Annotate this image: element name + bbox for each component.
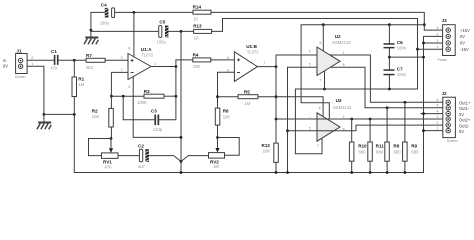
wire RV1 to C2 [118,155,139,157]
svg-text:7: 7 [263,61,265,65]
svg-text:R6: R6 [223,109,229,114]
svg-text:C6: C6 [397,40,403,45]
resistor R8 [385,142,401,161]
wire U1:B inverting input [218,72,235,108]
svg-text:1M: 1M [213,164,219,169]
svg-text:10K: 10K [263,149,271,154]
svg-text:C5: C5 [159,19,165,24]
wire R7 to U1:A +in [105,59,128,61]
wire RV2 loop [218,138,240,156]
svg-text:4: 4 [309,117,311,121]
op-amp U1:A [121,47,157,90]
node R9 tap [404,101,407,104]
svg-text:Screen: Screen [447,139,458,143]
svg-text:10: 10 [194,36,199,41]
svg-text:1: 1 [437,127,439,131]
wire U3 output A Out2+ [317,118,443,120]
node R1 bottom junction [73,113,76,116]
resistor R6 [215,108,230,137]
svg-text:47n: 47n [50,66,58,71]
resistor R11 [368,142,384,161]
node U3 pin4 tap [275,118,278,121]
svg-text:R7: R7 [86,53,92,58]
node bottom rail -15f tap [180,171,183,174]
resistor R1 [72,60,85,114]
capacitor C2 [138,143,149,169]
svg-text:100n: 100n [397,72,407,77]
wire feedback row to R3 [111,95,144,97]
node R5 right junction [275,95,278,98]
node RV2 wiper junction [216,136,219,139]
wire U2 output A [317,55,443,102]
svg-text:4: 4 [309,50,311,54]
wire R5 node to U3 top pin [276,97,323,117]
ground symbol input [37,114,51,129]
svg-text:J3: J3 [442,18,448,23]
svg-text:C7: C7 [397,67,403,72]
svg-text:U2: U2 [335,34,341,39]
resistor R10 [349,142,367,161]
svg-text:R9: R9 [411,143,417,148]
svg-text:100u: 100u [100,20,110,25]
resistor R13 [193,24,211,41]
driver U2 [309,34,351,82]
node R12 bottom rail [275,171,278,174]
node U2 V- tap [323,88,326,91]
svg-text:0V: 0V [460,41,465,46]
svg-text:0V: 0V [459,112,464,117]
connector J3 [437,18,470,62]
wire C3 left branch [123,96,155,120]
svg-text:10: 10 [193,16,198,21]
svg-text:Chinch: Chinch [15,75,26,79]
svg-text:2: 2 [437,121,439,125]
svg-text:J1: J1 [16,48,22,53]
svg-text:8: 8 [343,63,345,67]
svg-text:0V: 0V [460,34,465,39]
wire U1:A pin 8 supply drop [133,12,135,56]
svg-text:6: 6 [320,41,322,45]
svg-text:0V: 0V [459,129,464,134]
svg-text:5: 5 [309,126,311,130]
wire R11 string [369,119,371,173]
svg-text:R8: R8 [393,143,399,148]
node R10 tap [350,118,353,121]
node R8 tap [386,106,389,109]
svg-text:3: 3 [437,115,439,119]
svg-text:47K: 47K [105,164,113,169]
svg-text:3: 3 [437,32,439,36]
resistor R3 [137,89,164,105]
svg-text:5: 5 [437,104,439,108]
node 0V x C6C7 mid [422,56,425,59]
node C6 top tap [388,23,391,26]
wire V junction to RV2 [181,156,209,162]
node U3 pin5 tap [286,129,289,132]
node RV1 wiper junction [110,137,113,140]
node junction C4/U1 supply [133,11,136,14]
wire C2 to V junction [149,156,181,162]
wire U1:A pin4 to -15f [133,77,181,138]
node J2 0V pin3 junction [422,112,425,115]
svg-text:8: 8 [128,47,130,51]
svg-text:R2: R2 [92,108,98,113]
svg-text:6: 6 [319,106,321,110]
capacitor C6 [384,40,407,50]
wire C3 right to output node [159,96,176,120]
svg-text:1M: 1M [244,101,250,106]
connector J1 [3,48,33,79]
svg-text:680: 680 [394,150,402,155]
wire J3 pin1 [418,48,443,50]
node U1:A output junction [175,65,178,68]
wire R13 to -15 rail [212,19,418,154]
svg-text:680: 680 [411,150,419,155]
svg-text:U3: U3 [336,98,342,103]
capacitor C5 [157,19,169,44]
wire 0V to R1 bottom [44,113,74,115]
resistor R7 [86,53,105,70]
wire R9 string [404,102,406,172]
svg-text:-15V: -15V [460,47,469,52]
svg-text:1: 1 [437,45,439,49]
node J3 pin2 junction [422,42,425,45]
wire J3 pin2 [424,42,443,44]
driver U3 [309,98,352,148]
svg-text:7: 7 [317,144,319,148]
wire J1 0V down [27,66,44,114]
wire U3 output B Out2- [317,125,442,131]
svg-text:R13: R13 [193,24,202,29]
svg-text:4u7: 4u7 [138,164,146,169]
svg-text:680: 680 [359,150,367,155]
svg-text:10K: 10K [223,114,231,119]
svg-text:10K: 10K [92,114,100,119]
wire +15V top rail left segment to C4 [91,12,106,30]
wire R10 string [351,119,353,173]
resistor R2 [92,96,114,138]
node -15f pin4 tap [180,136,183,139]
node R11 tap [369,118,372,121]
svg-text:3: 3 [121,56,123,60]
wire C1 to R7 [59,59,87,61]
svg-text:1M: 1M [78,82,84,87]
wire RV1 loop [89,139,112,156]
svg-text:TL072: TL072 [141,52,154,57]
svg-text:R1: R1 [78,77,84,82]
wire +15 subrail [301,25,424,119]
wire U1:B output [257,66,276,68]
svg-text:1: 1 [343,51,345,55]
node ground/C4 junction [90,29,93,32]
svg-text:10K: 10K [193,64,201,69]
wire U2 V+ stub [322,25,324,51]
wire U1:A output [151,66,176,68]
svg-text:R11: R11 [376,143,385,148]
potentiometer RV1 [102,153,119,170]
op-amp U1:B [227,44,265,81]
svg-text:R3: R3 [144,89,150,94]
node input ground junction [43,113,46,116]
svg-text:Out1-: Out1- [459,106,470,111]
node J2 0V pin6 junction [422,129,425,132]
svg-text:C4: C4 [101,3,107,8]
wire RV1 wiper arrow [109,139,113,153]
wire output node up to R4 [176,60,193,96]
wire C6 string [388,25,390,89]
node C3 left branch [122,95,125,98]
wire U1:B out down R12 string [275,67,277,144]
svg-text:R10: R10 [358,143,367,148]
node R11 bottom [369,171,372,174]
ground rail y31 [91,30,159,32]
capacitor C7 [384,67,407,78]
node +15 subrail junction [423,23,426,26]
svg-text:C2: C2 [138,143,144,148]
svg-text:5: 5 [227,56,229,60]
node V junction [180,160,183,163]
wire 0V sense line U2 pin5 / U3 pin5 [288,67,318,172]
svg-text:100u: 100u [157,39,167,44]
capacitor C4 [100,3,115,26]
svg-text:4: 4 [437,110,439,114]
svg-text:1: 1 [154,62,156,66]
resistor R12 [262,143,279,173]
resistor R4 [193,52,211,69]
node C7 bottom tap [388,88,391,91]
capacitor C1 [50,49,58,71]
node R8 bottom [386,171,389,174]
svg-text:C3: C3 [151,108,157,113]
svg-text:Out1+: Out1+ [459,101,471,106]
wire -15f vertical drop [180,31,182,172]
svg-text:Out2+: Out2+ [459,118,471,123]
svg-text:4: 4 [437,26,439,30]
wire 0V drop from J3 [74,36,442,172]
wire C4 right plate to R14 [115,11,194,13]
resistor R5 [218,89,277,106]
svg-text:7: 7 [320,79,322,83]
node U2 V+ tap [322,23,325,26]
svg-text:SSM2142: SSM2142 [332,40,351,45]
wire R14 to J3 corner [211,12,442,30]
svg-text:6: 6 [437,98,439,102]
wire R8 string [386,108,388,173]
svg-text:C1: C1 [51,49,57,54]
svg-text:SSM2142: SSM2142 [333,105,352,110]
connector J2 [437,91,471,143]
svg-text:+15V: +15V [460,28,470,33]
ground symbol top [84,30,98,44]
wire U3 pin5 input [288,130,318,132]
svg-text:R14: R14 [193,5,202,10]
wire RV2 wiper arrow [215,138,219,153]
svg-text:R4: R4 [193,52,199,57]
wire U1:A inverting input [111,72,128,96]
wire U3 pin4 input [276,118,317,120]
svg-text:Power: Power [438,58,448,62]
svg-text:R5: R5 [244,89,250,94]
resistor R14 [193,5,211,22]
svg-text:TL072: TL072 [247,49,260,54]
svg-text:100n: 100n [397,46,407,51]
node R9 bottom [404,171,407,174]
svg-text:R12: R12 [262,143,271,148]
svg-text:1: 1 [31,62,33,66]
svg-text:2: 2 [31,56,33,60]
wire J1 pin In to C1 [27,59,54,61]
svg-text:5: 5 [309,62,311,66]
svg-text:4: 4 [128,85,130,89]
svg-text:100K: 100K [137,100,147,105]
node -15f junction [180,30,183,33]
capacitor C3 [151,108,163,132]
potentiometer RV2 [209,153,225,170]
svg-text:0V: 0V [3,64,8,69]
wire C5 right to R13 [168,30,193,32]
wire 0V link C6/C7 mid to 0V drop [389,56,423,58]
node output feedback junction [175,95,178,98]
wire U2 V- stub [324,71,326,89]
svg-text:2: 2 [437,39,439,43]
svg-text:Out2-: Out2- [459,123,470,128]
node C6/C7 midpoint [388,56,391,59]
resistor R9 [403,142,419,161]
node C1/R1 junction [73,59,76,62]
svg-text:2: 2 [121,68,123,72]
wire U1:B out up to U2 in [276,55,317,67]
wire R3 right to output node [164,95,176,97]
svg-text:J2: J2 [442,91,448,96]
node R10 bottom [350,171,353,174]
node U1:B output junction [275,65,278,68]
wire U2 output B [317,67,443,108]
svg-text:680: 680 [376,150,384,155]
node R5 left junction [216,95,219,98]
wire J2 0V pin3 line [421,113,443,115]
svg-text:2K2: 2K2 [86,65,94,70]
wire J2 0V pin6 line [424,130,443,132]
node 0V sense bottom rail [286,171,289,174]
node feedback/R2 junction [110,95,113,98]
node J3 pin1 tap [416,48,419,51]
svg-text:120p: 120p [153,127,163,132]
wire R4 to U1:B +in [211,59,235,61]
